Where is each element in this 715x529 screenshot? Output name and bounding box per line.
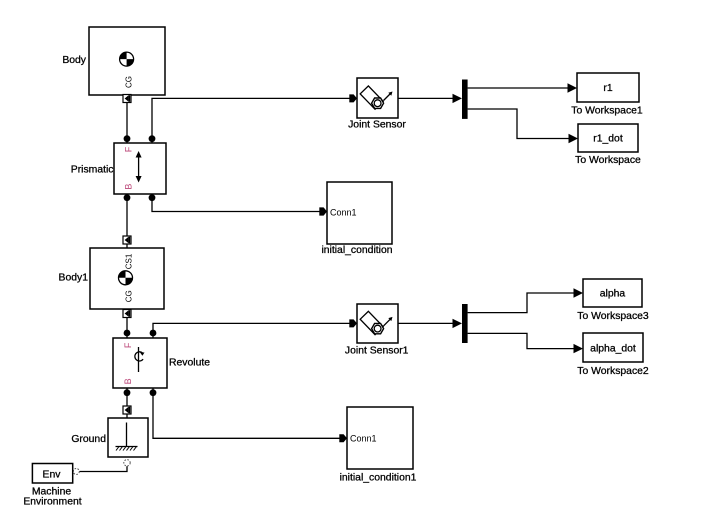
- svg-text:Conn1: Conn1: [330, 208, 357, 218]
- wire Joint Sensor to Mux: [398, 97, 453, 99]
- svg-text:initial_condition: initial_condition: [321, 245, 392, 256]
- svg-text:F: F: [124, 146, 134, 152]
- svg-text:Body: Body: [62, 55, 86, 66]
- wire Mux1 out2 to alpha_dot: [468, 333, 574, 348]
- svg-text:r1_dot: r1_dot: [593, 134, 623, 145]
- arrowhead into alpha_dot: [574, 344, 584, 353]
- wire Prismatic base to initial_condition: [152, 198, 320, 212]
- port icon B (Body bottom): [123, 95, 131, 103]
- svg-text:Prismatic: Prismatic: [71, 165, 114, 176]
- arrowhead into Mux: [453, 94, 463, 103]
- svg-text:alpha_dot: alpha_dot: [590, 344, 636, 355]
- node Prismatic top-left: [124, 135, 131, 142]
- block initial_condition1: [340, 407, 417, 484]
- block initial_condition: [321, 182, 392, 256]
- svg-text:F: F: [123, 342, 133, 348]
- svg-text:To Workspace3: To Workspace3: [577, 311, 649, 322]
- CG symbol (Body1): [119, 271, 133, 285]
- wire Body to Prismatic: [126, 103, 128, 140]
- svg-text:CG: CG: [124, 290, 133, 302]
- arrowhead into r1_dot: [569, 134, 579, 143]
- svg-text:alpha: alpha: [600, 289, 626, 300]
- wire Mux out2 to r1_dot: [468, 109, 569, 139]
- connector into Joint Sensor1: [349, 319, 357, 327]
- wire stubs Revolute ports: [127, 333, 153, 393]
- wire stub to Ground: [126, 414, 128, 419]
- svg-text:Env: Env: [43, 470, 62, 481]
- port stub Env: [72, 471, 75, 473]
- svg-text:Joint Sensor: Joint Sensor: [348, 120, 406, 131]
- block Ground: [71, 418, 148, 457]
- port icon CS1 (Body1 top): [123, 236, 131, 244]
- svg-text:To Workspace1: To Workspace1: [571, 106, 643, 117]
- connector into Joint Sensor: [349, 94, 357, 102]
- svg-text:Revolute: Revolute: [169, 358, 210, 369]
- block r1 (To Workspace1): [571, 73, 643, 117]
- CG symbol (Body): [120, 52, 134, 66]
- revolute axis icon: [135, 347, 145, 372]
- connector into initial_condition: [319, 207, 327, 215]
- port Ground env (dashed circle): [124, 460, 130, 466]
- svg-text:Environment: Environment: [23, 497, 81, 508]
- node Revolute top-left: [124, 330, 131, 337]
- block Machine Environment (Env): [23, 464, 81, 508]
- node Prismatic bottom-right: [149, 194, 156, 201]
- joint sensor1 icon (rotated rect + nut + arrow): [360, 311, 392, 334]
- wire Prismatic to Body1: [126, 198, 128, 237]
- block alpha (To Workspace3): [577, 279, 649, 322]
- svg-text:To Workspace2: To Workspace2: [577, 366, 649, 377]
- svg-text:To Workspace: To Workspace: [575, 155, 641, 166]
- svg-text:Body1: Body1: [59, 273, 89, 284]
- node Prismatic top-right: [149, 135, 156, 142]
- node Revolute bottom-left: [124, 389, 131, 396]
- arrowhead into Mux1: [453, 319, 463, 328]
- svg-text:r1: r1: [603, 83, 612, 94]
- block r1_dot (To Workspace): [575, 124, 641, 166]
- block Prismatic: [71, 143, 166, 194]
- block Body: [62, 27, 165, 95]
- svg-text:B: B: [123, 378, 133, 384]
- node Revolute bottom-right: [150, 389, 157, 396]
- node Revolute top-right: [150, 330, 157, 337]
- svg-text:B: B: [124, 184, 134, 190]
- prismatic axis arrow: [136, 151, 142, 183]
- wire Revolute to Ground: [126, 393, 128, 407]
- wire Prismatic follower to Joint Sensor: [152, 98, 350, 138]
- port icon CG (Body1 bottom): [123, 310, 131, 318]
- joint sensor icon (rotated rect + nut + arrow): [360, 86, 392, 109]
- svg-text:CS1: CS1: [125, 253, 134, 269]
- wire Revolute base to initial_condition1: [153, 393, 340, 439]
- port icon (Ground top): [123, 406, 131, 414]
- svg-text:Conn1: Conn1: [350, 434, 377, 444]
- node Prismatic bottom-left: [124, 194, 131, 201]
- block Body1: [59, 248, 164, 309]
- port Env (dashed circle): [73, 469, 79, 475]
- block Joint Sensor: [348, 78, 406, 131]
- wire Mux out1 to r1: [468, 87, 568, 89]
- block alpha_dot (To Workspace2): [577, 333, 649, 377]
- mux Mux (bar): [462, 80, 468, 119]
- svg-text:CG: CG: [124, 76, 133, 88]
- wire Mux1 out1 to alpha: [468, 293, 574, 313]
- connector into initial_condition1: [339, 434, 347, 442]
- wire stub to Body1: [126, 244, 128, 249]
- wire stubs Prismatic ports: [127, 139, 152, 198]
- block Revolute: [113, 338, 210, 388]
- wire Joint Sensor1 to Mux1: [398, 322, 453, 324]
- wire Machine Environment to Ground: [80, 466, 128, 471]
- svg-text:Joint Sensor1: Joint Sensor1: [345, 346, 409, 357]
- mux Mux1 (bar): [462, 304, 468, 343]
- wire Revolute follower to Joint Sensor1: [153, 323, 350, 333]
- ground symbol inside: [116, 423, 138, 451]
- block Joint Sensor1: [345, 304, 409, 357]
- arrowhead into r1: [568, 83, 578, 92]
- wire Body1 to Revolute: [126, 318, 128, 334]
- svg-text:initial_condition1: initial_condition1: [340, 473, 417, 484]
- arrowhead into alpha: [574, 288, 584, 297]
- svg-text:Ground: Ground: [71, 434, 106, 445]
